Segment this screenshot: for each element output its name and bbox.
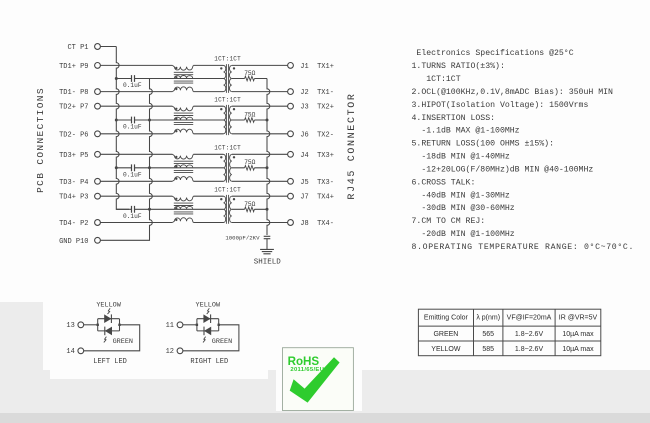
ground SHIELD earth symbol: [260, 249, 274, 253]
svg-text:RoHS: RoHS: [288, 355, 320, 368]
pin P9 terminal TD1+ P9: [95, 63, 101, 69]
wire CT P1 to rail: [100, 46, 116, 48]
wire CT rail vertical: [116, 47, 129, 210]
choke L1 top winding: [172, 65, 193, 70]
svg-text:J3 TX2+: J3 TX2+: [300, 104, 334, 112]
svg-text:1.8~2.6V: 1.8~2.6V: [515, 331, 544, 338]
svg-text:RIGHT LED: RIGHT LED: [190, 358, 228, 366]
pin P3 terminal TD4+ P3: [95, 193, 101, 199]
svg-text:TD1- P8: TD1- P8: [59, 89, 88, 97]
LED yellow emission mark: [108, 308, 111, 314]
svg-text:Emitting Color: Emitting Color: [424, 314, 469, 321]
pin P10 terminal GND P10: [95, 237, 101, 243]
choke L2 centre winding: [174, 117, 192, 120]
svg-text:565: 565: [482, 331, 494, 338]
svg-text:0.1uF: 0.1uF: [123, 82, 142, 89]
pin J7 terminal J7 TX4+: [288, 193, 294, 199]
wire TD1+ to choke: [100, 64, 172, 66]
wire choke L4 to transformer T4 (-): [193, 222, 223, 224]
svg-text:75Ω: 75Ω: [244, 159, 255, 166]
svg-text:1CT:1CT: 1CT:1CT: [214, 56, 241, 63]
capacitor C2 0.1uF: [116, 119, 149, 121]
wire T3 secondary (-) to J pin: [232, 180, 288, 182]
resistor R1 75 ohm: [232, 78, 267, 80]
wire TD3- to choke: [100, 180, 172, 182]
transformer T1 core: [226, 64, 228, 93]
pin P5 terminal TD3+ P5: [95, 151, 101, 157]
svg-text:RJ45 CONNECTOR: RJ45 CONNECTOR: [347, 92, 358, 199]
svg-text:J6 TX2-: J6 TX2-: [300, 131, 334, 139]
junction CT rail / cap C1: [115, 77, 118, 80]
wire LED pair to pin 14: [84, 325, 140, 351]
svg-text:11: 11: [166, 322, 174, 330]
resistor R2 75 ohm: [232, 119, 267, 121]
svg-text:TD2- P6: TD2- P6: [59, 131, 88, 139]
svg-text:75Ω: 75Ω: [244, 70, 255, 77]
choke L1 core: [174, 72, 193, 83]
choke L4 top winding: [172, 196, 193, 201]
transformer T4 core: [226, 195, 228, 224]
wire choke L1 to transformer T1 (+): [193, 64, 223, 66]
wire TD4- to choke: [100, 222, 172, 224]
svg-text:YELLOW: YELLOW: [196, 301, 221, 309]
svg-text:0.1uF: 0.1uF: [123, 124, 142, 131]
svg-text:TD3- P4: TD3- P4: [59, 179, 88, 187]
choke L2 core: [174, 113, 193, 125]
svg-text:TD4+ P3: TD4+ P3: [59, 194, 88, 202]
wire choke L3 to transformer T3 (-): [193, 180, 223, 182]
junction GND rail / cap C3: [148, 166, 151, 169]
svg-text:1000pF/2KV: 1000pF/2KV: [225, 235, 260, 242]
choke L1 bottom winding: [172, 87, 193, 92]
svg-text:SHIELD: SHIELD: [254, 258, 282, 266]
svg-text:λ p(nm): λ p(nm): [476, 314, 500, 321]
svg-text:LEFT LED: LEFT LED: [93, 358, 127, 366]
choke L2 top winding: [172, 106, 193, 111]
pin J2 terminal J2 TX1-: [288, 89, 294, 95]
pin P7 terminal TD2+ P7: [95, 103, 101, 109]
LED green diode (RIGHT LED): [204, 327, 211, 336]
svg-text:YELLOW: YELLOW: [431, 346, 461, 353]
wire TD2- to choke: [100, 133, 172, 135]
pin J8 terminal J8 TX4-: [288, 220, 294, 226]
choke L1 centre winding: [174, 75, 192, 78]
LED pair frame (RIGHT LED): [197, 319, 219, 331]
wire GND rail vertical: [100, 79, 152, 241]
wire choke L2 to transformer T2 (-): [193, 133, 223, 135]
transformer T3 secondary winding: [230, 154, 232, 181]
wire T4 secondary (-) to J pin: [232, 222, 288, 224]
svg-text:YELLOW: YELLOW: [96, 301, 121, 309]
junction termination rail / R2: [266, 119, 269, 122]
RoHS logo frame: [283, 348, 354, 411]
choke L3 centre winding: [174, 165, 192, 168]
transformer T3 primary winding: [224, 154, 226, 181]
pin P8 terminal TD1- P8: [95, 89, 101, 95]
svg-text:VF@IF=20mA: VF@IF=20mA: [507, 314, 552, 321]
pin P1 terminal CT P1: [95, 44, 101, 50]
svg-text:1.8~2.6V: 1.8~2.6V: [515, 346, 544, 353]
pin J6 terminal J6 TX2-: [288, 131, 294, 137]
svg-text:14: 14: [66, 348, 74, 356]
svg-text:GREEN: GREEN: [433, 331, 458, 338]
LED green emission mark: [104, 337, 107, 343]
LED green diode (LEFT LED): [105, 327, 112, 336]
svg-text:1CT:1CT: 1CT:1CT: [214, 144, 241, 151]
svg-text:TD3+ P5: TD3+ P5: [59, 152, 88, 160]
transformer T4 secondary winding: [230, 196, 232, 222]
choke L4 core: [174, 203, 193, 214]
svg-text:10µA max: 10µA max: [562, 346, 594, 353]
choke L4 centre winding: [174, 206, 192, 209]
svg-text:1CT:1CT: 1CT:1CT: [214, 96, 241, 103]
wire T1 secondary (+) to J pin: [232, 64, 288, 66]
transformer T2 core: [226, 105, 228, 135]
svg-text:J7 TX4+: J7 TX4+: [300, 194, 334, 202]
wire T2 secondary (-) to J pin: [232, 133, 288, 135]
svg-text:J8 TX4-: J8 TX4-: [300, 220, 334, 228]
resistor R4 75 ohm: [232, 208, 267, 210]
LED green emission mark: [203, 337, 206, 343]
transformer T1 secondary winding: [229, 65, 231, 91]
wire LED pair to pin 12: [183, 325, 239, 351]
svg-text:10µA max: 10µA max: [562, 331, 594, 338]
junction CT rail / cap C3: [115, 166, 118, 169]
wire pin 13 to LED pair: [84, 324, 98, 326]
svg-text:PCB CONNECTIONS: PCB CONNECTIONS: [35, 87, 46, 193]
pin P2 terminal TD4- P2: [95, 220, 101, 226]
svg-text:J2 TX1-: J2 TX1-: [300, 89, 334, 97]
LED yellow diode (LEFT LED): [104, 314, 111, 323]
transformer T4 primary winding: [224, 196, 226, 222]
wire TD2+ to choke: [100, 105, 172, 107]
choke L4 bottom winding: [172, 218, 193, 223]
wire TD3+ to choke: [100, 153, 172, 155]
svg-text:2011/65/EU: 2011/65/EU: [290, 367, 324, 373]
pin P4 terminal TD3- P4: [95, 178, 101, 184]
svg-text:0.1uF: 0.1uF: [123, 171, 142, 178]
wire T3 secondary (+) to J pin: [232, 153, 288, 155]
transformer T2 primary winding: [224, 106, 226, 134]
svg-text:585: 585: [482, 346, 494, 353]
capacitor C4 0.1uF: [116, 208, 149, 210]
svg-text:GND P10: GND P10: [59, 238, 88, 246]
junction GND rail / cap C4: [148, 208, 151, 211]
transformer T3 core: [226, 153, 228, 183]
junction CT rail / cap C2: [115, 119, 118, 122]
wire TD4+ to choke: [100, 195, 172, 197]
resistor R3 75 ohm: [232, 167, 267, 169]
capacitor C1 0.1uF: [116, 78, 149, 80]
svg-text:CT P1: CT P1: [67, 44, 88, 52]
transformer T1 primary winding: [224, 65, 226, 91]
wire T1 secondary (-) to J pin: [232, 91, 288, 93]
pin J3 terminal J3 TX2+: [288, 103, 294, 109]
choke L3 top winding: [172, 154, 193, 159]
svg-text:75Ω: 75Ω: [244, 111, 255, 118]
wire cap to shield ground: [266, 239, 268, 250]
svg-text:1CT:1CT: 1CT:1CT: [214, 186, 241, 193]
LED yellow emission mark: [207, 308, 210, 314]
choke L2 bottom winding: [172, 129, 193, 134]
choke L3 bottom winding: [172, 177, 193, 182]
pin J5 terminal J5 TX3-: [288, 178, 294, 184]
svg-text:J4 TX3+: J4 TX3+: [300, 152, 334, 160]
LED pair frame (LEFT LED): [98, 319, 120, 331]
wire cap C3 to choke centre winding: [150, 167, 224, 169]
wire TD1- to choke: [100, 91, 172, 93]
wire choke L2 to transformer T2 (+): [193, 105, 223, 107]
junction termination rail / R3: [266, 166, 269, 169]
wire pin 11 to LED pair: [183, 324, 197, 326]
wire choke L3 to transformer T3 (+): [193, 153, 223, 155]
junction GND rail / cap C2: [148, 119, 151, 122]
wire cap C4 to choke centre winding: [150, 208, 224, 210]
LED yellow diode (RIGHT LED): [203, 314, 210, 323]
svg-text:GREEN: GREEN: [212, 338, 232, 346]
wire cap C2 to choke centre winding: [150, 119, 224, 121]
LED table frame: [418, 309, 600, 356]
transformer T2 secondary winding: [230, 106, 232, 134]
svg-text:J5 TX3-: J5 TX3-: [300, 179, 334, 187]
wire choke L1 to transformer T1 (-): [193, 91, 223, 93]
capacitor C5 1000pF/2KV: [264, 236, 271, 238]
svg-text:GREEN: GREEN: [113, 338, 133, 346]
junction termination rail / R4: [266, 208, 269, 211]
svg-text:TD1+ P9: TD1+ P9: [59, 63, 88, 71]
pin J1 terminal J1 TX1+: [288, 63, 294, 69]
svg-text:0.1uF: 0.1uF: [123, 213, 142, 220]
wire termination rail to 1000pF cap: [267, 79, 270, 236]
svg-text:12: 12: [166, 348, 174, 356]
svg-text:IR @VR=5V: IR @VR=5V: [559, 314, 598, 321]
wire cap C1 to choke centre winding: [150, 78, 224, 80]
wire T2 secondary (+) to J pin: [232, 105, 288, 107]
capacitor C3 0.1uF: [116, 167, 149, 169]
wire choke L4 to transformer T4 (+): [193, 195, 223, 197]
pin P6 terminal TD2- P6: [95, 131, 101, 137]
choke L3 core: [174, 161, 193, 172]
svg-text:J1 TX1+: J1 TX1+: [300, 63, 334, 71]
pin J4 terminal J4 TX3+: [288, 151, 294, 157]
RoHS checkmark: [290, 357, 340, 402]
svg-text:75Ω: 75Ω: [244, 201, 255, 208]
svg-text:13: 13: [66, 322, 74, 330]
svg-text:TD4- P2: TD4- P2: [59, 220, 88, 228]
svg-text:TD2+ P7: TD2+ P7: [59, 104, 88, 112]
wire T4 secondary (+) to J pin: [232, 195, 288, 197]
